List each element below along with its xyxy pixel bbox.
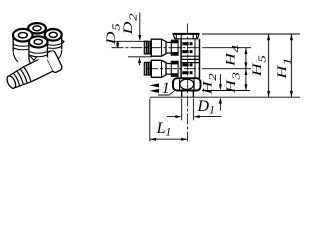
neck lower xyxy=(166,64,171,75)
ext centerline lower right xyxy=(202,68,251,70)
gripper lower inside column xyxy=(182,63,192,66)
extension and dimension lines xyxy=(112,34,301,142)
elbow threaded stem xyxy=(3,49,63,93)
dimension D1 xyxy=(167,98,222,118)
ring right port xyxy=(45,29,62,41)
sleeve body lower xyxy=(151,60,166,77)
lower side port xyxy=(144,60,192,77)
ring left port xyxy=(13,29,33,42)
upper side port xyxy=(144,39,192,56)
sleeve body upper xyxy=(151,39,166,56)
baseline xyxy=(150,96,300,98)
centerline lower port xyxy=(146,68,200,70)
gripper upper inside column xyxy=(182,42,192,45)
svg-text:1: 1 xyxy=(162,80,170,97)
dimension H2 xyxy=(201,73,222,111)
ext nut bottom right xyxy=(202,90,250,92)
hex nut xyxy=(173,78,201,90)
ext centerline upper right xyxy=(202,47,251,49)
manifold block xyxy=(13,51,18,62)
sleeve right port xyxy=(45,35,62,51)
gland lower xyxy=(171,61,178,76)
ext top of body (right) xyxy=(202,33,300,35)
dimension H5 xyxy=(250,34,270,97)
ext stem walls for D1 xyxy=(182,99,194,121)
ext left for L1 xyxy=(149,99,151,142)
top port flange xyxy=(173,33,200,35)
centerlines xyxy=(112,24,200,142)
ring back port xyxy=(28,23,46,33)
note 1 callout xyxy=(149,80,174,97)
ext bottom of upper port xyxy=(128,56,152,58)
dimension L1 xyxy=(150,120,188,141)
body column xyxy=(181,39,199,79)
v-notch between sleeves xyxy=(30,56,37,61)
3D fitting pictogram xyxy=(3,23,64,93)
release collar lower xyxy=(144,62,151,75)
ring front port xyxy=(29,36,48,47)
sleeve left port xyxy=(13,35,32,52)
threaded stem xyxy=(182,91,194,98)
release collar upper xyxy=(144,41,151,54)
sleeve back port xyxy=(28,29,46,33)
dimension H3 xyxy=(224,69,247,94)
dimension H4 xyxy=(224,44,248,68)
neck upper xyxy=(166,42,171,53)
dimension H1 xyxy=(275,34,293,97)
vertical centerline xyxy=(186,24,188,142)
ext top of upper port xyxy=(112,40,149,42)
sleeve front port xyxy=(29,42,48,60)
gland upper xyxy=(171,40,178,55)
dimension D2 xyxy=(122,13,142,66)
dimension D5 xyxy=(105,23,123,48)
centerline upper port xyxy=(112,47,200,49)
